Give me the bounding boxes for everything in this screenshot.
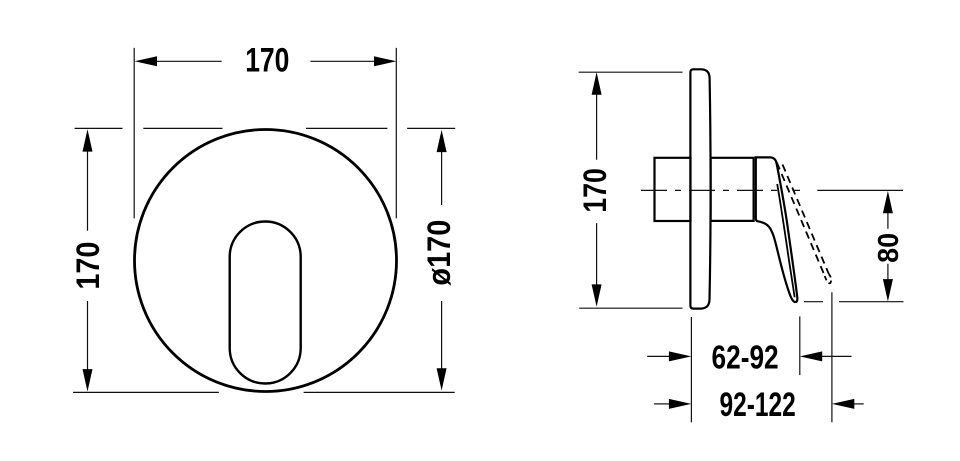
dimension ø170: bottom arrowhead — [437, 368, 447, 390]
svg-text:62-92: 62-92 — [712, 340, 779, 377]
dimension 170 top: line — [156, 60, 375, 62]
dimension 92-122: right arrow line — [853, 403, 864, 405]
dimension 62-92: right arrowhead — [800, 351, 822, 361]
extension line below plate (left, for 62-92 and 92-122) — [690, 317, 692, 422]
dimension 62-92: left arrow line — [647, 355, 670, 357]
svg-text:80: 80 — [872, 233, 904, 263]
dimension 62-92: right arrow line — [821, 355, 852, 357]
extension line dashed lever tip (for 92-122) — [831, 292, 833, 422]
dimension ø170 right: line — [441, 151, 443, 369]
svg-text:170: 170 — [578, 168, 614, 212]
lever alternate position (dashed) tip arc — [825, 274, 831, 283]
dimension 80: bottom extension line — [804, 301, 904, 303]
dimension 92-122: right arrowhead — [832, 399, 854, 409]
dimension 62-92: left arrowhead — [669, 351, 691, 361]
dimension 170 top: right arrowhead — [374, 56, 396, 66]
svg-text:ø170: ø170 — [422, 220, 458, 286]
extension line left (width 170) — [133, 48, 135, 219]
dimension 170 top: left arrowhead — [135, 56, 157, 66]
cover plate circle ø170 — [135, 130, 397, 392]
svg-text:170: 170 — [245, 40, 289, 79]
cover plate (side profile) — [690, 69, 710, 308]
dimension 170 (side): top extension line — [579, 71, 683, 73]
dimension 170 (side): bottom arrowhead — [592, 284, 602, 306]
dimension 92-122: left arrow line — [654, 403, 670, 405]
lever front edge detail line — [777, 184, 794, 297]
lever cutout stadium — [230, 222, 301, 384]
dimension 170 left: top arrowhead — [83, 129, 93, 151]
centerline (dash-dot) — [641, 189, 782, 191]
dimension 80: top arrowhead — [883, 191, 893, 213]
dimension ø170: top arrowhead — [437, 130, 447, 152]
lever handle (solid, down position) — [756, 157, 798, 302]
dimension 92-122: left arrowhead — [669, 399, 691, 409]
concealed body rectangle — [655, 158, 691, 221]
dimension 170 (side): top arrowhead — [592, 72, 602, 94]
top tangent line (dashed) — [75, 127, 456, 129]
dimension 170 (side): line — [596, 94, 598, 285]
dimension 170 (side): bottom extension line — [579, 307, 682, 309]
lever alternate position (dashed) edge 1 — [777, 163, 825, 277]
svg-text:92-122: 92-122 — [720, 386, 796, 424]
dimension 80: bottom arrowhead — [883, 279, 893, 301]
dimension 80: line — [887, 212, 889, 280]
dimension 170 left: bottom arrowhead — [83, 369, 93, 391]
dimension 80: top extension line (centerline extended) — [792, 189, 903, 191]
extension line right (width 170) — [395, 48, 397, 219]
extension line solid lever tip (for 62-92) — [799, 316, 801, 375]
cartridge housing — [711, 158, 754, 221]
dimension 170 left: line — [87, 151, 89, 370]
svg-text:170: 170 — [71, 242, 107, 290]
bottom tangent line — [73, 391, 455, 393]
lever alternate position (dashed) edge 2 — [783, 165, 829, 275]
